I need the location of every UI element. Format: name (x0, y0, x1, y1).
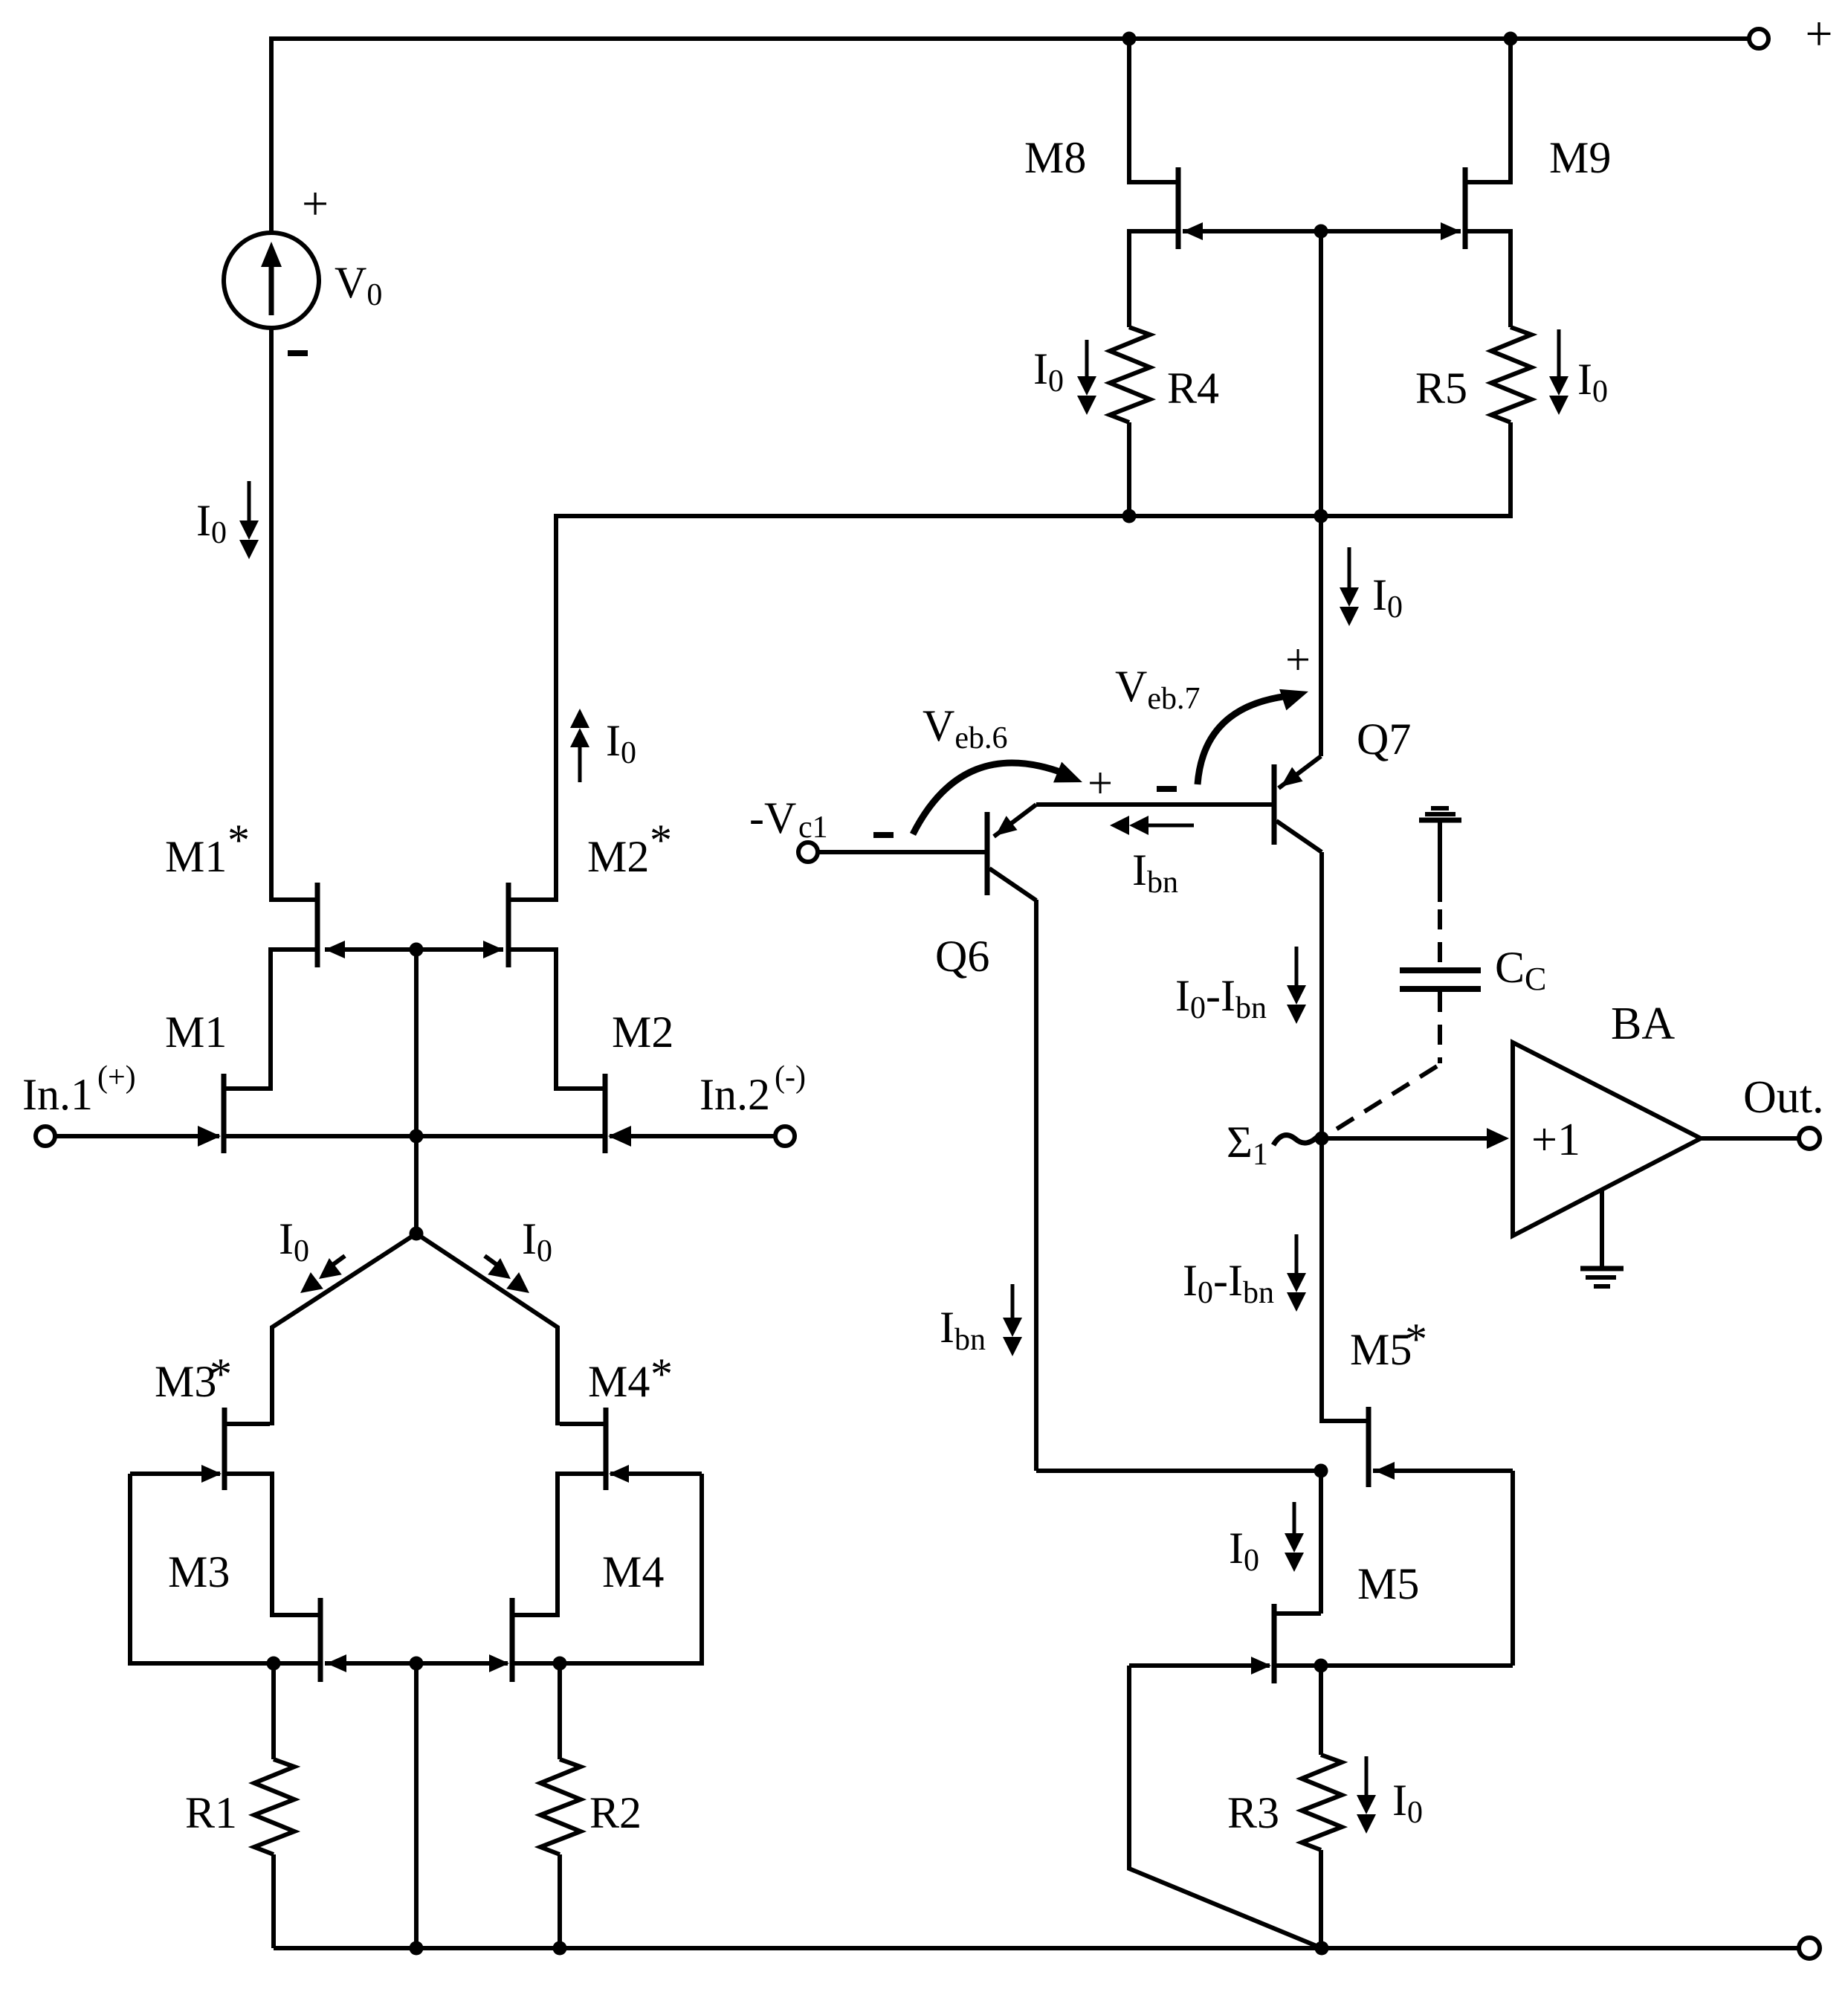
node top rail M9 (1504, 32, 1518, 46)
wire R5 bottom lead (1508, 422, 1513, 518)
svg-text:BA: BA (1611, 999, 1675, 1049)
wire Q6 collector vertical (1034, 900, 1038, 1471)
wire Q7 collector vertical (1319, 852, 1324, 1423)
transistor Q7 bar (1272, 764, 1277, 845)
wire Q6 collector diagonal (989, 868, 1036, 900)
svg-text:M3: M3 (155, 1357, 216, 1406)
wire In.1 gate (55, 1134, 219, 1138)
wire M5 drain vertical (1319, 1471, 1323, 1614)
svg-text:(-): (-) (775, 1060, 806, 1095)
wire Q7 emitter vertical (1319, 516, 1323, 756)
op-amp BA triangle (1513, 1042, 1701, 1236)
svg-text:+1: +1 (1531, 1115, 1580, 1165)
wire M4* source jog (560, 1422, 606, 1426)
svg-text:M5: M5 (1350, 1325, 1412, 1374)
node top rail M8 (1122, 32, 1137, 46)
source V0 arrow (269, 251, 274, 315)
wire M5* gate row (1036, 1469, 1321, 1473)
wire R1 bottom lead (271, 1854, 276, 1948)
transistor M5* bar (1366, 1407, 1372, 1487)
ground BA (1580, 1266, 1624, 1271)
terminal In.2 (775, 1126, 795, 1146)
transistor M2* bar (506, 883, 511, 967)
node Q7 emitter rail junction (1314, 509, 1328, 523)
wire M4* gate (610, 1472, 702, 1476)
wire V0 bottom to M1* source (269, 328, 274, 902)
terminal + supply (top right) (1749, 29, 1768, 48)
transistor M8 bar (1176, 167, 1181, 249)
svg-text:*: * (1405, 1315, 1427, 1364)
source V0 circle (224, 233, 319, 328)
wire Q7 collector diagonal (1276, 821, 1322, 852)
wire R1 top lead (271, 1663, 276, 1759)
node R3 bottom junction (1315, 1941, 1329, 1956)
arrow Veb.6 arc (913, 763, 1066, 834)
terminal -Vc1 (798, 842, 818, 862)
wire Cc dashed diagonal (1324, 1066, 1437, 1137)
svg-text:-V: -V (749, 793, 796, 842)
svg-text:*: * (650, 1350, 673, 1399)
svg-text:+: + (1088, 758, 1113, 808)
wire R3 top lead (1319, 1666, 1323, 1755)
wire M3 source + loop (130, 1474, 318, 1663)
svg-text:c1: c1 (798, 810, 828, 845)
wire M8 drain (1129, 231, 1178, 327)
node R2 bottom junction (553, 1941, 567, 1956)
svg-text:R3: R3 (1227, 1788, 1279, 1837)
node R4 bottom junction (1122, 509, 1137, 523)
svg-text:R5: R5 (1415, 364, 1467, 413)
resistor R4 (1110, 327, 1150, 422)
svg-text:Out.: Out. (1743, 1072, 1824, 1123)
terminal bottom right (1799, 1938, 1820, 1959)
wire gate junction drop (1319, 231, 1323, 516)
wire M5* gate corner down (1511, 1471, 1515, 1666)
wire M5* source jog (1322, 1419, 1369, 1423)
wire bottom rail (274, 1946, 1799, 1950)
wire Cc dashed bottom (1438, 992, 1442, 1063)
wire BA ground stub (1600, 1190, 1604, 1269)
node input common junction (410, 1129, 424, 1144)
arrow I0 left branch (248, 481, 251, 522)
wire tail diagonal left (272, 1234, 416, 1425)
wire M8 source jog (1127, 180, 1178, 184)
arrow I0 R5 (1557, 329, 1561, 378)
wire center bottom vertical (414, 1663, 419, 1948)
label - Veb7 (1157, 786, 1177, 792)
wire In.2 gate (610, 1134, 775, 1138)
wire top positive supply rail (271, 36, 1749, 41)
wire M3 gate (325, 1661, 416, 1666)
node M1*-M2* gate junction (410, 943, 424, 957)
svg-text:M8: M8 (1024, 133, 1086, 182)
wire sigma1 to BA (1322, 1136, 1490, 1141)
node center bottom rail junction (410, 1941, 424, 1956)
squiggle sigma1 (1273, 1134, 1320, 1145)
wire M4 source + loop (514, 1474, 702, 1663)
svg-text:R4: R4 (1167, 364, 1219, 413)
svg-text:R2: R2 (589, 1788, 642, 1837)
svg-text:*: * (210, 1350, 232, 1399)
transistor M9 bar (1463, 167, 1468, 249)
node sigma1 summing junction (1315, 1132, 1329, 1146)
wire M9 source jog (1465, 180, 1513, 184)
wire M2* gate (416, 947, 503, 952)
terminal Out (1799, 1128, 1820, 1149)
svg-text:M9: M9 (1549, 133, 1611, 182)
wire M3* gate (130, 1472, 220, 1476)
transistor M1 bar (222, 1074, 227, 1153)
wire M3* drain (224, 1474, 318, 1615)
wire M5 drain jog (1276, 1611, 1321, 1616)
arrow I0 tail right (485, 1256, 501, 1268)
wire R3 bottom lead (1319, 1850, 1323, 1948)
svg-text:M1: M1 (165, 1008, 227, 1057)
svg-text:In.1: In.1 (22, 1070, 93, 1119)
arrow I0 R4 (1085, 340, 1089, 378)
resistor R1 (254, 1759, 294, 1854)
wire M2* source vertical (554, 514, 558, 902)
wire M5 gate (1129, 1663, 1270, 1668)
node R1 top junction (267, 1657, 281, 1671)
resistor R2 (540, 1759, 581, 1854)
terminal In.1 (36, 1126, 55, 1146)
arrow I0 R3 (1365, 1756, 1369, 1796)
arrow I0 tail left (329, 1256, 345, 1268)
wire R4 bottom lead (1127, 422, 1131, 516)
transistor M4* bar (604, 1408, 609, 1490)
wire M5 source (1276, 1663, 1513, 1668)
wire M2* source jog (508, 897, 558, 902)
svg-text:M1: M1 (165, 832, 227, 881)
wire M1* source jog (269, 897, 317, 902)
wire Q6 base (818, 850, 985, 854)
wire M2* branch to mirror rail (554, 514, 1511, 518)
svg-text:*: * (650, 816, 672, 865)
arrow Ibn base (1147, 824, 1194, 828)
transistor M3* bar (222, 1408, 227, 1490)
wire V0 top (269, 36, 274, 232)
wire BA output (1701, 1136, 1799, 1141)
resistor R5 (1491, 327, 1531, 422)
svg-text:M3: M3 (168, 1547, 230, 1596)
transistor Q6 bar (985, 812, 990, 895)
wire Cc dashed top (1438, 909, 1442, 967)
wire M5 gate loop (1129, 1666, 1322, 1948)
resistor R3 (1302, 1755, 1342, 1850)
transistor M3 bar (318, 1598, 323, 1682)
wire M1* drain (224, 950, 317, 1089)
svg-text:(+): (+) (97, 1060, 136, 1095)
wire M8 source drop (1127, 39, 1131, 182)
transistor M5 bar (1272, 1604, 1277, 1683)
wire M3* source jog (224, 1422, 270, 1426)
svg-text:Q7: Q7 (1357, 715, 1411, 764)
svg-text:M4: M4 (588, 1357, 650, 1406)
wire M4 gate (416, 1661, 508, 1666)
wire M8 gate (1183, 229, 1321, 233)
arrow Ibn Q6 collector (1011, 1284, 1015, 1319)
arrow Veb.7 arc (1198, 696, 1288, 784)
wire R2 bottom lead (558, 1854, 562, 1948)
svg-text:R1: R1 (185, 1788, 237, 1837)
wire Q7 emitter diagonal (1279, 756, 1321, 788)
svg-text:M2: M2 (587, 832, 649, 881)
svg-text:M5: M5 (1357, 1559, 1419, 1608)
wire M9 drain (1465, 231, 1511, 327)
arrow I0-Ibn lower (1295, 1234, 1299, 1274)
svg-text:+: + (1805, 7, 1832, 61)
wire Q6 emitter diagonal (994, 805, 1036, 837)
wire M9 source drop (1508, 39, 1513, 182)
svg-text:M4: M4 (602, 1547, 664, 1596)
transistor M1* bar (315, 883, 320, 967)
transistor M2 bar (603, 1074, 608, 1153)
svg-text:+: + (1285, 635, 1311, 684)
node center gate row junction (410, 1657, 424, 1671)
arrow I0-Ibn upper (1295, 947, 1299, 987)
transistor M4 bar (510, 1598, 515, 1682)
wire tail diagonal right (416, 1234, 558, 1425)
node R2 top junction (553, 1657, 567, 1671)
wire M4* drain (514, 1474, 606, 1615)
wire M2* drain (508, 950, 605, 1089)
wire center vertical (414, 950, 419, 1234)
svg-text:In.2: In.2 (700, 1070, 770, 1119)
node M8 M9 gate junction (1314, 225, 1328, 239)
arrow I0 M5 (1293, 1502, 1296, 1535)
svg-text:+: + (302, 177, 329, 230)
wire M9 gate (1321, 229, 1461, 233)
label - of V0 (288, 350, 308, 356)
node M5* gate junction (1314, 1464, 1328, 1478)
capacitor Cc plates (1400, 967, 1481, 973)
wire R2 top lead (558, 1663, 562, 1759)
label - Veb6 (873, 832, 894, 838)
svg-text:*: * (227, 816, 250, 865)
node tail junction (410, 1227, 424, 1241)
node M5 source junction (1314, 1659, 1328, 1673)
wire Q7 base rail (1036, 802, 1272, 807)
wire M1* gate (325, 947, 416, 952)
svg-text:M2: M2 (612, 1008, 673, 1057)
svg-text:Q6: Q6 (935, 932, 989, 981)
wire M2 source (416, 1134, 605, 1138)
ground Cc top (1431, 806, 1449, 810)
arrow I0 Q7 emitter (1348, 547, 1351, 589)
wire M1 source (224, 1134, 416, 1138)
arrow I0 M2* branch up (578, 746, 582, 782)
